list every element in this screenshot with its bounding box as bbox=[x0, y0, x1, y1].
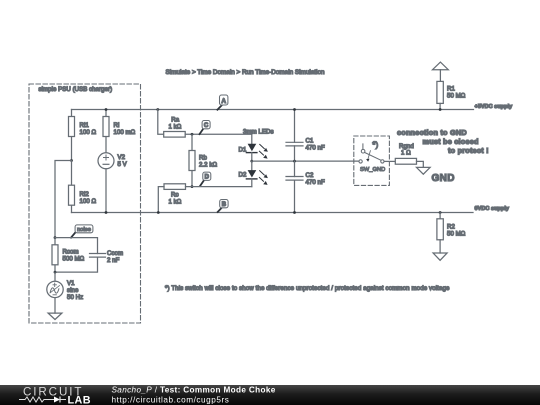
power supply arrow +5V bbox=[433, 62, 449, 81]
resistor R1 50 MΩ bbox=[437, 81, 466, 109]
wire common-mode loop bottom bbox=[55, 257, 98, 272]
voltage source V1 sine 50 Hz bbox=[47, 272, 83, 301]
svg-text:Rc: Rc bbox=[171, 192, 179, 199]
svg-text:V1: V1 bbox=[67, 280, 75, 287]
LED D2 bbox=[239, 161, 268, 187]
svg-text:2 nF: 2 nF bbox=[107, 257, 120, 264]
svg-text:D2: D2 bbox=[239, 172, 247, 179]
ground: V1 bbox=[48, 298, 62, 320]
svg-text:100 Ω: 100 Ω bbox=[80, 129, 97, 136]
svg-text:3mm LEDs: 3mm LEDs bbox=[243, 129, 274, 136]
node tag A bbox=[217, 95, 228, 110]
svg-text:50 Hz: 50 Hz bbox=[67, 294, 83, 301]
svg-text:*): *) bbox=[372, 140, 378, 150]
title: Simulate > Time Domain > Run Time-Domain Simulation bbox=[166, 69, 325, 76]
ground: GND earth bbox=[417, 167, 431, 174]
junction: R1 on +5V rail bbox=[439, 108, 442, 111]
wire common-mode loop top bbox=[55, 238, 98, 254]
wire +5V rail to Ra bbox=[158, 110, 164, 135]
footer bar bbox=[0, 385, 540, 405]
label: connection note bbox=[397, 128, 489, 155]
svg-text:+5VDC supply: +5VDC supply bbox=[475, 104, 514, 110]
label: 3mm LEDs bbox=[243, 129, 274, 136]
junction: R2 on 0V rail bbox=[439, 211, 442, 214]
capacitor C2 470 nF bbox=[286, 161, 325, 212]
svg-text:Ri: Ri bbox=[114, 122, 120, 129]
switch SW_GND bbox=[359, 144, 385, 173]
svg-text:V2: V2 bbox=[118, 154, 126, 161]
junction: Rc branch on 0V rail bbox=[157, 211, 160, 214]
junction: Ri1 bottom node bbox=[70, 159, 73, 162]
svg-text:1 kΩ: 1 kΩ bbox=[169, 199, 182, 206]
svg-text:Ra: Ra bbox=[171, 117, 179, 124]
svg-text:1 kΩ: 1 kΩ bbox=[169, 124, 182, 131]
svg-text:Ccom: Ccom bbox=[107, 250, 123, 257]
logo: CircuitLab bbox=[19, 385, 91, 405]
svg-text:100 Ω: 100 Ω bbox=[80, 198, 97, 205]
svg-text:http://circuitlab.com/cugp5rs: http://circuitlab.com/cugp5rs bbox=[112, 396, 230, 405]
svg-text:connection to GND: connection to GND bbox=[397, 128, 467, 137]
junction: common-mode bottom node bbox=[54, 271, 57, 274]
node tag C bbox=[200, 121, 211, 135]
note: switch explanation bbox=[165, 285, 450, 292]
node tag: noise bbox=[71, 225, 93, 238]
wire Rc row bbox=[158, 187, 252, 213]
junction: C2 bottom on 0V rail bbox=[293, 211, 296, 214]
svg-text:C1: C1 bbox=[306, 138, 314, 145]
junction: Ra branch on +5V rail bbox=[156, 108, 159, 111]
wire Rgnd to ground bbox=[417, 161, 424, 167]
resistor R2 50 MΩ bbox=[437, 213, 466, 254]
svg-text:Simulate > Time Domain > Run T: Simulate > Time Domain > Run Time-Domain… bbox=[166, 69, 325, 76]
label: +5VDC supply bbox=[475, 104, 514, 110]
svg-text:D1: D1 bbox=[239, 147, 247, 154]
svg-text:50 MΩ: 50 MΩ bbox=[447, 93, 466, 100]
svg-text:must be closed: must be closed bbox=[423, 137, 479, 146]
svg-text:Sancho_P / Test: Common Mode C: Sancho_P / Test: Common Mode Choke bbox=[112, 385, 276, 394]
svg-text:B: B bbox=[222, 202, 227, 208]
svg-text:noise: noise bbox=[77, 227, 91, 233]
svg-text:470 nF: 470 nF bbox=[306, 145, 325, 152]
svg-text:D: D bbox=[205, 175, 210, 181]
resistor Rc 1 kΩ bbox=[164, 184, 186, 206]
svg-text:A: A bbox=[221, 98, 226, 105]
ground: R2 bbox=[433, 253, 447, 260]
svg-text:LAB: LAB bbox=[68, 394, 91, 405]
svg-text:R2: R2 bbox=[447, 224, 455, 231]
wire 0VDC bottom rail bbox=[72, 212, 474, 214]
svg-text:470 nF: 470 nF bbox=[306, 179, 325, 186]
junction: C1/C2 midpoint bbox=[293, 160, 296, 163]
svg-text:Ri2: Ri2 bbox=[80, 191, 90, 198]
svg-text:1 Ω: 1 Ω bbox=[401, 150, 411, 157]
svg-text:simple PSU (USB charger): simple PSU (USB charger) bbox=[39, 86, 113, 93]
footer text: title bbox=[112, 385, 276, 404]
capacitor Ccom 2 nF bbox=[90, 250, 124, 264]
node tag D bbox=[200, 172, 211, 186]
voltage source V2 5 V bbox=[98, 153, 128, 213]
svg-text:Ri1: Ri1 bbox=[80, 122, 90, 129]
svg-text:to protect !: to protect ! bbox=[448, 146, 489, 155]
junction: Ra / Rb node bbox=[191, 133, 194, 136]
switch enclosure dashed box bbox=[354, 136, 390, 185]
label: 0VDC supply bbox=[475, 206, 510, 212]
svg-text:GND: GND bbox=[432, 173, 455, 184]
resistor Ri2 100 Ω bbox=[69, 161, 97, 213]
label: GND bbox=[432, 173, 455, 184]
junction: Ri top on +5V rail bbox=[105, 108, 108, 111]
svg-text:50 MΩ: 50 MΩ bbox=[447, 231, 466, 238]
LED D1 bbox=[239, 144, 268, 161]
svg-text:SW_GND: SW_GND bbox=[360, 167, 385, 173]
wire +5VDC top rail bbox=[72, 109, 474, 111]
junction: Rb / Rc node bbox=[191, 185, 194, 188]
svg-text:*) This switch will close to s: *) This switch will close to show the di… bbox=[165, 285, 450, 292]
svg-text:0VDC supply: 0VDC supply bbox=[475, 206, 510, 212]
svg-text:sine: sine bbox=[67, 287, 79, 294]
PSU enclosure dashed box bbox=[29, 84, 141, 323]
resistor Rb 2.2 kΩ bbox=[189, 134, 217, 186]
wire middle rail (LEDs to switch) bbox=[252, 160, 359, 162]
svg-text:100 mΩ: 100 mΩ bbox=[114, 129, 136, 136]
resistor Rgnd 1 Ω bbox=[395, 143, 416, 164]
svg-text:2.2 kΩ: 2.2 kΩ bbox=[199, 162, 217, 169]
junction: V2 bottom on 0V rail bbox=[105, 211, 108, 214]
junction: common-mode top node bbox=[54, 236, 57, 239]
svg-text:5 V: 5 V bbox=[118, 161, 128, 168]
wire Ri1-bottom to common-mode branch bbox=[55, 161, 72, 238]
svg-text:500 MΩ: 500 MΩ bbox=[63, 256, 85, 263]
label: *) bbox=[372, 140, 378, 150]
junction: LED midpoint node bbox=[250, 160, 253, 163]
svg-text:C: C bbox=[204, 123, 209, 129]
wire D1 anode bbox=[251, 134, 253, 144]
resistor Ri 100 mΩ bbox=[103, 110, 136, 153]
capacitor C1 470 nF bbox=[286, 110, 325, 162]
svg-text:Rb: Rb bbox=[199, 155, 207, 162]
junction: C1 top on +5V rail bbox=[293, 108, 296, 111]
svg-text:Rcom: Rcom bbox=[63, 249, 79, 256]
svg-text:C2: C2 bbox=[306, 172, 314, 179]
label: simple PSU (USB charger) bbox=[39, 86, 113, 93]
resistor Ri1 100 Ω bbox=[69, 110, 97, 161]
wire switch to Rgnd bbox=[384, 160, 395, 162]
resistor Rcom 500 MΩ bbox=[52, 238, 85, 273]
svg-text:R1: R1 bbox=[447, 86, 455, 93]
node tag B bbox=[218, 200, 228, 213]
resistor Ra 1 kΩ bbox=[164, 117, 186, 138]
wire Ra to LED D1 branch bbox=[185, 133, 252, 135]
